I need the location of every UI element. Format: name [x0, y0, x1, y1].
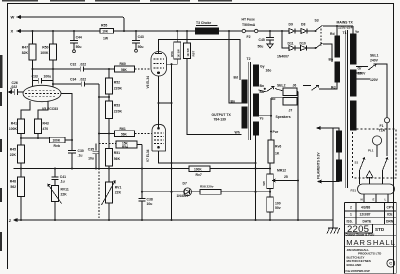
svg-text:1202-324: 1202-324 — [338, 26, 352, 30]
wire V6 cathode pins — [158, 76, 160, 128]
diode D10 — [301, 46, 307, 51]
svg-text:C41: C41 — [60, 175, 66, 179]
svg-text:R53: R53 — [114, 103, 120, 107]
svg-text:R41: R41 — [11, 121, 17, 125]
wire heater mid — [338, 152, 340, 160]
svg-text:22K: 22K — [61, 193, 68, 197]
potentiometer RV1 22K — [108, 169, 110, 183]
svg-text:Rv6: Rv6 — [275, 145, 281, 149]
svg-text:Rd: Rd — [330, 32, 335, 36]
plug pins N E L — [364, 194, 388, 203]
wire 120V tap — [356, 78, 370, 80]
svg-text:Bu: Bu — [260, 90, 265, 94]
svg-text:CPY: CPY — [387, 206, 395, 210]
svg-text:V5 ECC83: V5 ECC83 — [42, 107, 58, 111]
resistor R50 100K — [52, 31, 54, 44]
svg-text:R43: R43 — [43, 121, 49, 125]
wire — [141, 145, 143, 199]
svg-text:R57: R57 — [191, 51, 195, 57]
capacitor C38 10u — [139, 198, 146, 220]
wire heater top — [317, 127, 320, 130]
switch S1 mains dashed enclosure — [353, 129, 397, 178]
svg-text:C38: C38 — [147, 197, 153, 201]
svg-text:X: X — [11, 28, 14, 33]
wire — [219, 30, 243, 32]
svg-text:.1u: .1u — [78, 154, 83, 158]
svg-text:50v: 50v — [275, 206, 281, 210]
svg-text:C30: C30 — [78, 149, 84, 153]
svg-text:D11: D11 — [288, 41, 294, 45]
svg-text:R52: R52 — [114, 80, 120, 84]
transformer T1 heater windings — [337, 131, 342, 152]
svg-text:MR12: MR12 — [277, 168, 286, 172]
wire anode right — [52, 60, 54, 87]
capacitor C30 .1u — [68, 151, 76, 169]
svg-text:100K: 100K — [40, 51, 49, 55]
svg-text:F2: F2 — [247, 35, 251, 39]
svg-text:22K: 22K — [115, 191, 122, 195]
svg-text:56K: 56K — [121, 68, 128, 72]
wire heater bottom — [318, 180, 321, 183]
diode D7 1N4007 — [184, 188, 192, 196]
svg-text:Or: Or — [358, 67, 363, 71]
svg-text:100K: 100K — [53, 139, 61, 143]
transformer T1 primary — [350, 34, 356, 64]
node Y input — [9, 91, 12, 94]
svg-text:C34: C34 — [70, 77, 76, 81]
capacitor C45 50u — [266, 31, 274, 44]
svg-text:RV1: RV1 — [115, 185, 122, 189]
wire V6 anode — [159, 40, 241, 81]
svg-text:E: E — [373, 198, 375, 202]
svg-text:22K: 22K — [10, 153, 17, 157]
svg-text:RV11: RV11 — [61, 188, 69, 192]
resistor R47 82K — [32, 31, 34, 44]
wire splitter feed — [98, 84, 100, 169]
transformer T1 mains core — [345, 30, 347, 188]
svg-text:ENGLAND: ENGLAND — [347, 263, 363, 267]
node Z bus — [14, 219, 17, 222]
wire secondary common — [255, 135, 257, 220]
svg-text:R55: R55 — [101, 24, 107, 28]
svg-text:C45: C45 — [259, 38, 265, 42]
resistor R53 220K — [108, 94, 110, 101]
svg-text:Ye: Ye — [355, 30, 359, 34]
svg-text:5W: 5W — [262, 181, 266, 186]
svg-text:C35: C35 — [88, 147, 94, 151]
svg-text:1N4007: 1N4007 — [277, 54, 289, 58]
diode D8 — [301, 29, 307, 34]
svg-text:.022: .022 — [80, 62, 87, 66]
svg-text:C43: C43 — [138, 35, 144, 39]
svg-text:50u: 50u — [258, 45, 264, 49]
resistor R51 56K — [108, 134, 110, 149]
jack J7 speakers — [283, 98, 297, 106]
wire — [332, 128, 334, 228]
wire bias pot link — [272, 179, 298, 182]
svg-text:56K: 56K — [121, 132, 128, 136]
svg-text:.022: .022 — [11, 85, 18, 89]
svg-text:L: L — [385, 198, 387, 202]
svg-text:C32: C32 — [70, 62, 76, 66]
earth symbol — [366, 171, 373, 184]
resistor R56 1K5W — [176, 31, 178, 42]
svg-text:Wh: Wh — [235, 130, 240, 134]
svg-text:C44: C44 — [76, 36, 82, 40]
svg-text:240V: 240V — [370, 58, 379, 62]
svg-text:J7: J7 — [289, 109, 293, 113]
transformer T2 output secondary — [253, 65, 258, 86]
svg-text:SEL2: SEL2 — [277, 84, 286, 88]
svg-text:D9: D9 — [289, 22, 293, 26]
wire — [307, 30, 315, 32]
wire V7 anode feed — [187, 59, 242, 135]
diode D11 — [289, 46, 295, 51]
svg-text:Gy: Gy — [260, 64, 265, 68]
wire dashed grid V6 — [135, 68, 151, 70]
svg-text:C33: C33 — [32, 74, 38, 78]
copyright circle — [387, 259, 395, 267]
wire dashed pot link — [99, 143, 116, 145]
potentiometer RV11 22K — [52, 186, 59, 202]
svg-text:100K: 100K — [194, 168, 202, 172]
svg-text:1W: 1W — [103, 36, 109, 40]
svg-text:R60: R60 — [120, 62, 126, 66]
capacitor C43 50u — [132, 31, 140, 49]
resistor R45 22K — [20, 138, 22, 145]
svg-text:1: 1 — [350, 213, 352, 217]
svg-text:T2A: T2A — [379, 129, 386, 133]
svg-text:ISS.: ISS. — [347, 219, 353, 223]
title block frame — [345, 203, 397, 274]
wire mid bus — [14, 168, 190, 170]
switch S1 pole right — [383, 158, 389, 171]
svg-text:1N4007: 1N4007 — [177, 194, 189, 198]
scan artifact top edge — [2, 0, 232, 1]
svg-text:562: 562 — [10, 185, 16, 189]
svg-text:T500mA: T500mA — [242, 23, 256, 27]
svg-text:F1: F1 — [380, 124, 384, 128]
wire — [307, 47, 316, 49]
wire W bus — [17, 17, 124, 31]
svg-text:220K: 220K — [114, 109, 123, 113]
resistor R58 220v — [200, 190, 221, 195]
svg-text:82K: 82K — [22, 51, 29, 55]
svg-text:S1: S1 — [355, 160, 359, 164]
svg-text:R56: R56 — [170, 51, 174, 57]
svg-text:HT Fuse: HT Fuse — [242, 18, 255, 22]
potentiometer MR12 bias — [267, 174, 274, 189]
wire D7 bias feed — [142, 191, 184, 193]
resistor R48 562 — [18, 177, 25, 197]
svg-text:Bn: Bn — [329, 57, 334, 61]
ground chassis — [327, 228, 340, 234]
svg-text:FS1: FS1 — [351, 188, 357, 192]
wire C32 feed — [33, 68, 81, 70]
svg-text:SEL1: SEL1 — [370, 53, 379, 57]
svg-text:100u: 100u — [44, 74, 52, 78]
svg-text:16o: 16o — [266, 69, 272, 73]
wire — [295, 30, 301, 32]
svg-text:W: W — [11, 14, 15, 19]
resistor R57 1K — [186, 31, 188, 43]
svg-text:220V: 220V — [358, 72, 367, 76]
wire long cathode — [171, 64, 173, 220]
wire lower HT — [282, 31, 289, 48]
lamp PL1 neon — [372, 136, 381, 145]
svg-text:J6: J6 — [293, 84, 297, 88]
switch SEL1 voltage — [356, 66, 368, 68]
transformer core — [248, 62, 250, 140]
svg-text:Bn: Bn — [260, 84, 265, 88]
svg-text:50u: 50u — [76, 45, 82, 49]
svg-text:R45: R45 — [10, 147, 16, 151]
svg-text:V6 EL34: V6 EL34 — [146, 76, 150, 89]
wire dashed grid V7 — [135, 133, 152, 135]
wire Ye tap — [259, 115, 271, 117]
resistor R46 1K — [268, 140, 274, 163]
capacitor C26 .022 — [9, 89, 24, 95]
svg-text:Bd: Bd — [234, 75, 239, 79]
wire — [114, 30, 196, 32]
svg-text:Speakers: Speakers — [276, 115, 291, 119]
fuse F2 HT T500mA — [242, 29, 245, 32]
svg-text:.022: .022 — [80, 77, 87, 81]
svg-text:R50: R50 — [42, 46, 48, 50]
capacitor C33 100u — [33, 78, 54, 84]
svg-text:100K: 100K — [9, 127, 18, 131]
svg-text:OUTPUT TX: OUTPUT TX — [212, 113, 232, 117]
svg-text:Rv7: Rv7 — [196, 173, 202, 177]
svg-text:Bn: Bn — [231, 99, 236, 103]
svg-text:Pur: Pur — [273, 130, 279, 134]
resistor R52 220K — [108, 69, 110, 78]
wire — [258, 30, 289, 32]
jack J6 speakers — [283, 88, 297, 96]
svg-text:DRN.: DRN. — [386, 219, 394, 223]
mains inlet FS1 — [358, 184, 395, 194]
wire — [20, 163, 22, 177]
svg-text:1K 5W: 1K 5W — [177, 49, 181, 58]
resistor R43 470 — [35, 119, 42, 134]
wire HT centre tap — [229, 31, 242, 103]
switch S1 pole left — [360, 158, 366, 171]
wire V7 cathode — [159, 151, 256, 163]
svg-text:2: 2 — [350, 206, 352, 210]
svg-text:784-139: 784-139 — [214, 118, 227, 122]
resistor R54 15K — [116, 141, 137, 148]
wire — [295, 47, 301, 49]
svg-text:R47: R47 — [22, 46, 28, 50]
svg-text:MAINS TX: MAINS TX — [337, 20, 354, 24]
svg-text:1K: 1K — [275, 152, 280, 156]
transformer T2 output primary — [242, 80, 247, 103]
wire bias tap — [99, 96, 109, 98]
wire — [275, 89, 298, 92]
svg-text:56K: 56K — [114, 157, 121, 161]
wire HT winding red — [336, 26, 338, 36]
capacitor C41 .1u — [52, 169, 59, 186]
wire — [20, 197, 22, 221]
svg-text:V7 EL34: V7 EL34 — [146, 149, 150, 162]
capacitor C32 .022 — [80, 67, 109, 72]
svg-text:10K: 10K — [102, 29, 109, 33]
wire dashed down — [98, 169, 100, 221]
svg-text:Output Stage & PSU: Output Stage & PSU — [346, 232, 375, 236]
fuse F1 T2A — [384, 118, 389, 123]
svg-text:T3 Choke: T3 Choke — [196, 21, 211, 25]
svg-text:220K: 220K — [114, 86, 123, 90]
svg-text:R48: R48 — [10, 179, 16, 183]
wire junction row — [21, 137, 50, 139]
switch jack contact — [303, 85, 319, 90]
resistor R41 100K — [18, 119, 25, 134]
node W — [17, 16, 21, 19]
valve V7 EL34 — [152, 124, 166, 151]
capacitor C44 50u — [70, 31, 78, 50]
svg-text:.1u: .1u — [60, 179, 65, 183]
wire V5 output — [61, 94, 72, 151]
svg-text:1K 5W: 1K 5W — [186, 48, 190, 57]
svg-text:120V: 120V — [370, 78, 379, 82]
capacitor C35 10u — [93, 144, 100, 169]
svg-text:R58 220v: R58 220v — [200, 185, 214, 189]
wire X HT bus — [17, 30, 100, 32]
svg-text:FILAMENTS 6.3V: FILAMENTS 6.3V — [316, 152, 320, 179]
svg-text:R54: R54 — [122, 145, 128, 149]
svg-text:470: 470 — [43, 127, 49, 131]
transformer T1 HT secondary — [335, 36, 340, 57]
wire cathode pins V5 — [21, 101, 30, 119]
svg-text:10u: 10u — [147, 202, 153, 206]
switch S3 standby — [316, 25, 323, 30]
svg-text:D8: D8 — [301, 22, 305, 26]
svg-text:50u: 50u — [138, 45, 144, 49]
resistor R61 56K — [115, 131, 135, 137]
svg-text:C: C — [389, 261, 392, 266]
wire jack sleeve — [297, 92, 299, 221]
wire — [108, 119, 110, 134]
svg-text:Rvb: Rvb — [54, 144, 60, 148]
svg-text:T1: T1 — [343, 31, 347, 35]
ground — [267, 44, 273, 48]
svg-text:8o: 8o — [272, 97, 276, 101]
svg-text:ICE: ICE — [387, 213, 393, 217]
switch SEL2 impedance — [259, 90, 266, 92]
wire Pur bias tap — [271, 97, 283, 99]
diode D9 — [289, 29, 295, 34]
svg-text:4/3/88: 4/3/88 — [361, 206, 370, 210]
title block text — [346, 206, 395, 273]
capacitor C34 .022 — [53, 82, 99, 87]
svg-text:R51: R51 — [114, 151, 120, 155]
svg-text:R61: R61 — [120, 127, 126, 131]
valve V5 ECC83 — [23, 85, 61, 101]
svg-text:25: 25 — [284, 175, 288, 179]
svg-text:N: N — [361, 198, 363, 202]
svg-text:PL1: PL1 — [368, 148, 374, 152]
svg-text:Rd: Rd — [331, 86, 336, 90]
svg-text:STD: STD — [375, 227, 385, 232]
svg-text:DATE: DATE — [363, 219, 373, 223]
svg-text:D10: D10 — [300, 41, 306, 45]
wire — [297, 195, 299, 220]
valve V6 EL34 — [151, 52, 167, 77]
resistor Rvb 100K — [50, 137, 66, 143]
svg-text:10u: 10u — [88, 157, 94, 161]
svg-text:M A R S H A L L: M A R S H A L L — [346, 238, 395, 247]
resistor R55 10K 1W — [100, 29, 114, 34]
wire mains live — [376, 64, 387, 118]
svg-text:File:2205PWR-OSP: File:2205PWR-OSP — [346, 269, 371, 273]
svg-text:T2: T2 — [247, 57, 251, 61]
node X — [17, 30, 21, 33]
wire anode left — [32, 60, 34, 87]
svg-text:Ye: Ye — [260, 116, 264, 120]
resistor R60 56K — [115, 66, 135, 72]
wire — [21, 134, 38, 146]
capacitor C40 100 50v — [267, 197, 274, 212]
potentiometer Rv7 100K master — [189, 166, 210, 172]
scan artifact left edge — [0, 55, 2, 251]
svg-text:D7: D7 — [183, 181, 187, 185]
svg-text:S3: S3 — [315, 18, 319, 22]
svg-text:12/3/87: 12/3/87 — [360, 213, 371, 217]
svg-text:100: 100 — [275, 202, 281, 206]
choke T3 — [196, 28, 219, 34]
